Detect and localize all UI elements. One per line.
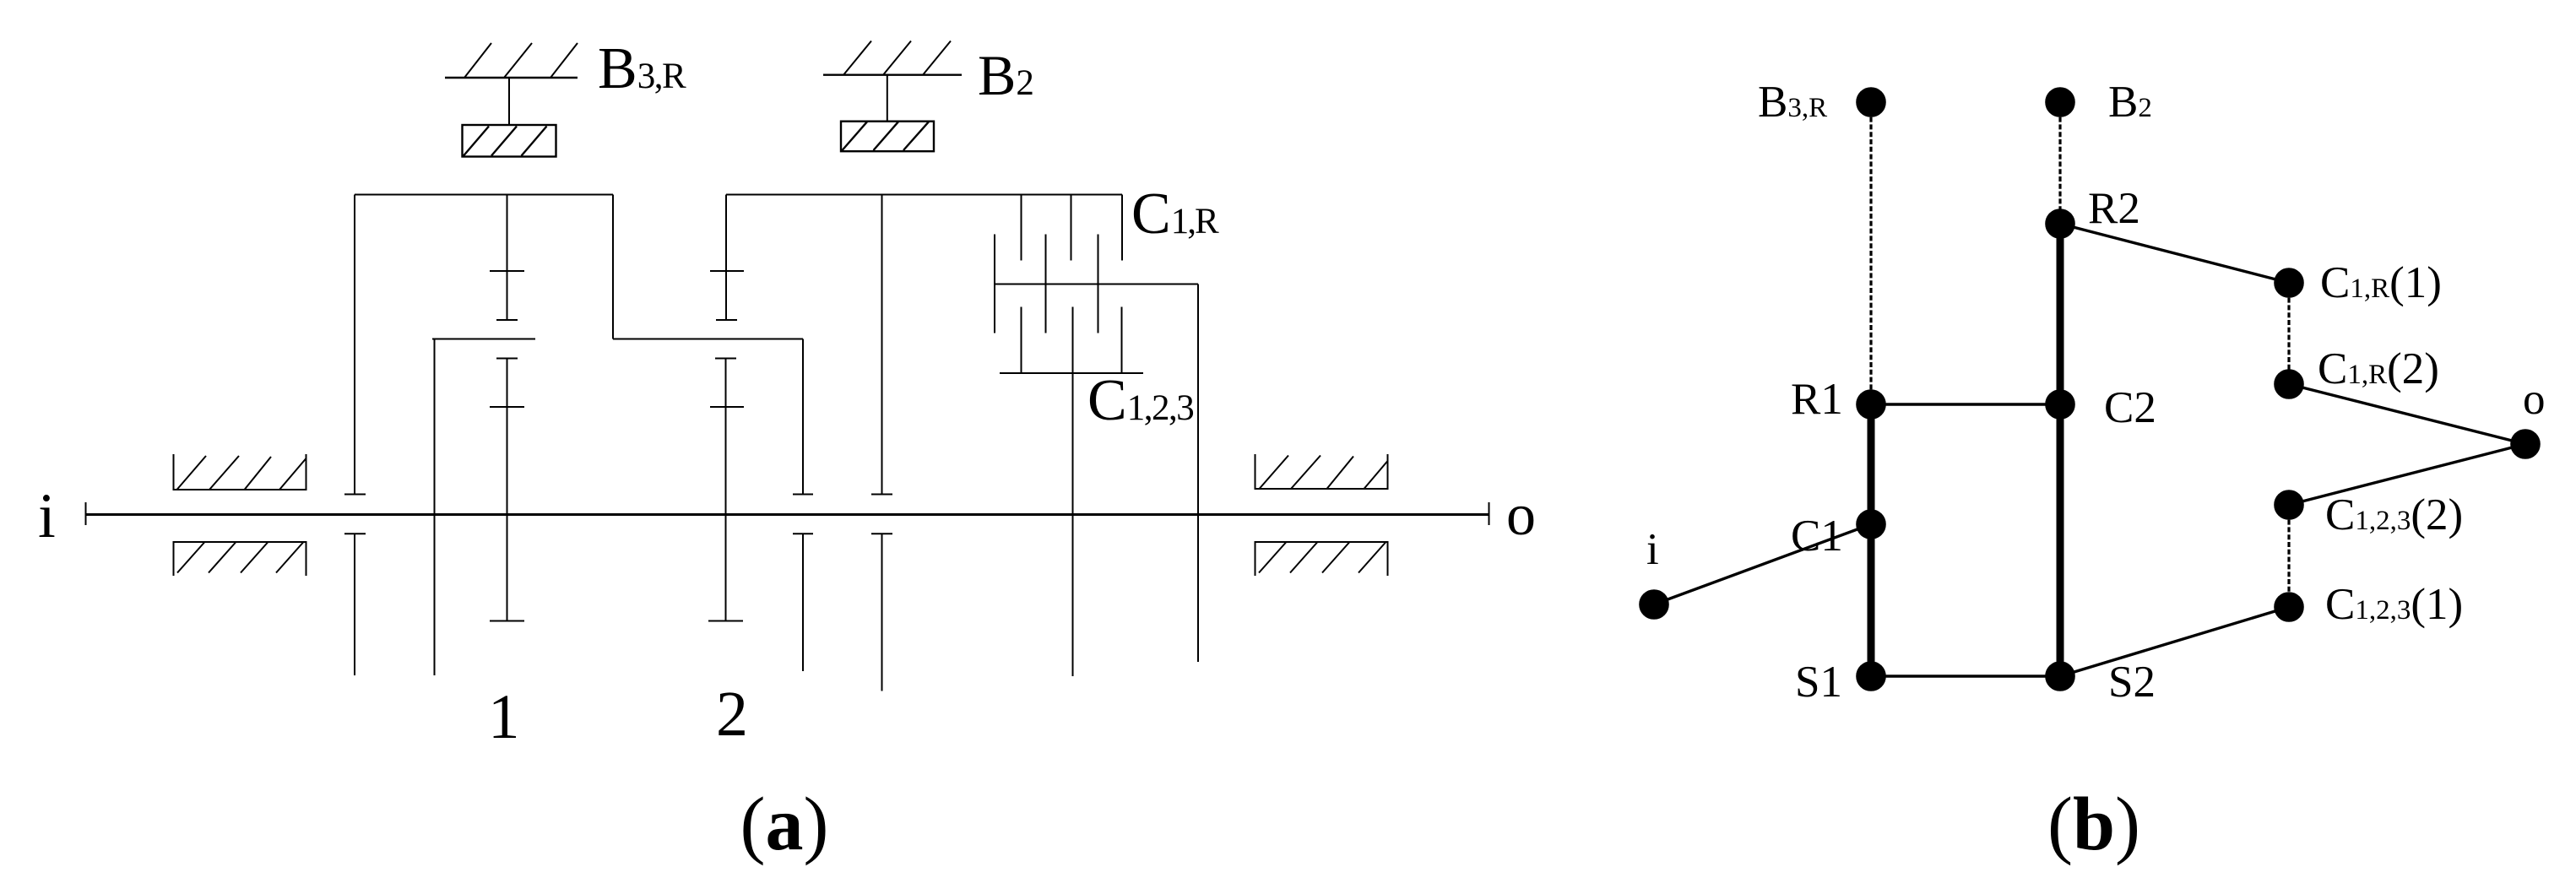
node C1,R(2) <box>2275 370 2303 398</box>
brake B3,R hatching <box>464 43 491 78</box>
svg-text:R1: R1 <box>1791 375 1843 424</box>
brake B3,R ground line <box>445 77 578 79</box>
input bearing upper <box>174 454 306 490</box>
svg-text:C1,2,3(1): C1,2,3(1) <box>2325 580 2463 629</box>
svg-text:B3,R: B3,R <box>598 36 686 101</box>
svg-text:S2: S2 <box>2108 658 2156 707</box>
wire ring-1 top rail <box>355 194 613 196</box>
svg-text:(b): (b) <box>2047 783 2140 866</box>
svg-text:S1: S1 <box>1795 658 1842 707</box>
edge R2 to C1,R(1) <box>2060 224 2289 283</box>
wire ring-1 to carrier-2 corner <box>612 195 614 339</box>
ring gear 2 vertical <box>871 195 892 691</box>
svg-text:i: i <box>38 481 56 551</box>
edge C1,R(1) to C1,R(2) dotted <box>2287 283 2290 384</box>
node C1,2,3(2) <box>2275 490 2303 519</box>
ring gear 1 left vertical <box>354 195 355 495</box>
graph b <box>1654 102 2525 676</box>
carrier 2 vertical <box>793 339 813 672</box>
svg-text:C1,2,3: C1,2,3 <box>1087 368 1193 433</box>
svg-text:C1,R(2): C1,R(2) <box>2318 344 2439 393</box>
clutch middle plate <box>995 284 1198 285</box>
brake B3,R <box>445 43 578 157</box>
edge i to C1 <box>1654 524 1871 604</box>
svg-text:o: o <box>1506 483 1536 548</box>
clutch C1,2,3 lower teeth <box>1022 307 1122 374</box>
input bearing lower <box>174 542 306 576</box>
node R2 <box>2046 209 2074 238</box>
svg-text:2: 2 <box>716 679 748 750</box>
svg-text:i: i <box>1646 525 1659 574</box>
node B3,R <box>1857 88 1885 116</box>
output bearing lower <box>1255 542 1388 576</box>
node i <box>1640 590 1668 619</box>
svg-text:C1,R: C1,R <box>1131 182 1219 247</box>
brake B3,R stem <box>508 78 510 125</box>
clutch output vertical <box>1197 284 1199 663</box>
node o <box>2511 430 2540 458</box>
node C1,2,3(1) <box>2275 593 2303 621</box>
brake B2 hatching <box>843 41 871 75</box>
svg-text:C1: C1 <box>1791 512 1843 561</box>
output bearing upper <box>1255 454 1388 489</box>
input shaft end tick <box>85 502 87 525</box>
node S2 <box>2046 662 2074 691</box>
svg-text:R2: R2 <box>2088 184 2140 233</box>
node C1 <box>1857 510 1885 539</box>
clutch middle teeth <box>995 235 1098 333</box>
node C2 <box>2046 390 2074 419</box>
svg-text:(a): (a) <box>740 783 829 866</box>
edge C1,2,3(1) to S2 <box>2060 607 2289 676</box>
svg-text:1: 1 <box>488 682 520 752</box>
brake B2 <box>823 41 962 152</box>
edge o to C1,2,3(2) <box>2289 444 2525 505</box>
node B2 <box>2046 88 2074 116</box>
clutch C1,R upper teeth <box>1022 195 1123 261</box>
edge C1,2,3(2) to C1,2,3(1) dotted <box>2287 505 2290 607</box>
svg-text:B2: B2 <box>2108 78 2152 127</box>
carrier 1 vertical <box>434 339 436 676</box>
brake B2 stem <box>887 75 888 122</box>
edge R1 to S1 thick <box>1868 404 1875 676</box>
node C1,R(1) <box>2275 268 2303 297</box>
sun gear 1 <box>490 359 524 621</box>
wire carrier-2 rail <box>613 339 803 340</box>
clutch C1,2,3 stem to shaft <box>1072 373 1074 676</box>
wire ring-2 top rail <box>726 194 1122 196</box>
brake B3,R pad <box>463 125 556 157</box>
brake B2 pad <box>841 122 934 152</box>
node S1 <box>1857 662 1885 691</box>
main shaft axis <box>86 513 1489 516</box>
brake B2 ground line <box>823 73 962 75</box>
edge C1,R(2) to o <box>2289 384 2525 444</box>
svg-text:B2: B2 <box>978 43 1034 107</box>
edge R2 to S2 thick <box>2057 224 2064 676</box>
svg-text:o: o <box>2523 375 2546 424</box>
edge S1 to S2 <box>1871 675 2060 677</box>
ring gear 1 left vertical lower <box>344 533 366 534</box>
svg-text:C2: C2 <box>2104 383 2156 432</box>
svg-text:C1,2,3(2): C1,2,3(2) <box>2325 490 2463 539</box>
wire carrier-1 rail <box>432 339 535 340</box>
edge R1 to C2 <box>1871 403 2060 405</box>
planet gear 1 upper mesh <box>490 195 524 321</box>
sun gear 2 <box>708 359 744 621</box>
edge B3,R to R1 dotted <box>1869 102 1872 404</box>
edge B2 to R2 dotted <box>2058 102 2061 224</box>
node R1 <box>1857 390 1885 419</box>
clutch C1,2,3 bottom plate <box>1000 372 1143 374</box>
output shaft end tick <box>1489 502 1490 525</box>
svg-text:B3,R: B3,R <box>1758 78 1827 127</box>
svg-text:C1,R(1): C1,R(1) <box>2320 258 2442 307</box>
planet gear 2 upper mesh <box>710 195 744 321</box>
